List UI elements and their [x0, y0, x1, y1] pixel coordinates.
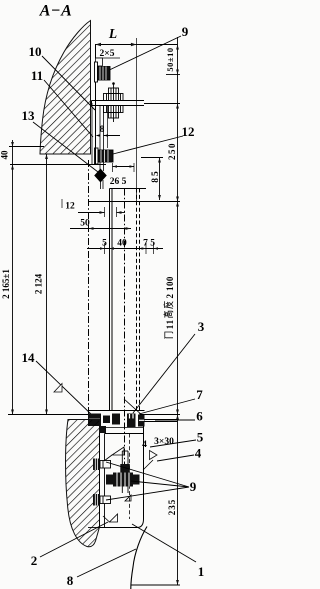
- pivot bolt upper: [104, 82, 124, 100]
- pivot bolt lower: [104, 106, 124, 123]
- dimension 2124: [34, 273, 44, 294]
- dimension 2165±1: [1, 269, 11, 299]
- floor line bottom: [131, 584, 180, 586]
- door centre line: [124, 189, 126, 473]
- pit lid line: [105, 433, 144, 435]
- svg-text:11: 11: [165, 319, 175, 329]
- floor spring clamp nut: [106, 473, 140, 487]
- pit inner wall: [104, 434, 106, 528]
- top anchor bolt: [95, 62, 111, 82]
- svg-text:A−A: A−A: [39, 3, 73, 20]
- dimension door height 2100 (hand-drawn CJK glyphs): [164, 276, 176, 338]
- weld triangle T4: [125, 495, 131, 501]
- glyph gao: [164, 311, 174, 318]
- glyph men: [164, 332, 173, 338]
- wall face inner line: [91, 103, 93, 165]
- door top reference line: [88, 201, 180, 203]
- lintel bottom line: [10, 164, 106, 166]
- svg-text:2×5: 2×5: [100, 49, 115, 59]
- svg-text:1: 1: [198, 564, 205, 579]
- floor tick right: [140, 414, 180, 416]
- svg-text:8: 8: [100, 125, 105, 135]
- pivot bracket plate: [92, 100, 145, 102]
- svg-text:2 165±1: 2 165±1: [1, 269, 11, 299]
- pivot point (filled): [94, 169, 107, 183]
- svg-text:8: 8: [67, 573, 74, 588]
- dimension 26.5: [112, 163, 114, 172]
- anchor bolt pit lower: [93, 494, 111, 506]
- svg-text:12: 12: [182, 124, 195, 139]
- svg-text:10: 10: [29, 44, 42, 59]
- lower wall section (hatched): [66, 420, 100, 547]
- right dimension line: [177, 37, 179, 585]
- svg-text:L: L: [108, 26, 117, 41]
- weld triangle T1: [112, 447, 124, 455]
- left dim line 2124: [46, 154, 48, 415]
- left dim line (40 / 2165): [12, 140, 14, 415]
- floor spring spindle shaft: [120, 451, 130, 493]
- threshold lines: [145, 419, 178, 421]
- leader 9 top: [103, 36, 181, 73]
- frame centre line: [88, 160, 90, 414]
- frame anchor bolt lower: [95, 148, 114, 164]
- svg-text:12: 12: [65, 202, 75, 212]
- svg-text:5: 5: [197, 430, 204, 445]
- door leaf top: [110, 188, 147, 190]
- svg-text:2 100: 2 100: [165, 276, 175, 298]
- svg-text:3: 3: [198, 319, 205, 334]
- svg-text:26 5: 26 5: [110, 177, 127, 187]
- svg-text:6: 6: [196, 409, 203, 424]
- svg-text:3×30: 3×30: [154, 437, 174, 447]
- svg-text:14: 14: [22, 350, 36, 365]
- dimension 235: [167, 499, 177, 516]
- floor line left: [8, 414, 92, 416]
- tick bracket level: [144, 103, 180, 105]
- svg-text:4: 4: [142, 440, 147, 450]
- frame face line: [95, 44, 97, 165]
- glyph du: [164, 301, 174, 308]
- upper wall section (hatched): [40, 21, 91, 155]
- dimension 50±10: [165, 47, 175, 71]
- svg-text:50: 50: [80, 219, 90, 229]
- door stop dashed line c: [139, 189, 141, 411]
- door stop dashed line b: [136, 189, 138, 411]
- svg-text:4: 4: [195, 446, 202, 461]
- pit inner dashed: [129, 434, 131, 520]
- svg-text:2: 2: [31, 553, 38, 568]
- svg-text:50±10: 50±10: [165, 47, 175, 71]
- door leaf face line b: [111, 189, 113, 411]
- pit top edge: [100, 427, 144, 429]
- wall edge curve bottom right: [131, 527, 147, 589]
- tick 50±10 bottom: [166, 74, 180, 76]
- svg-text:40: 40: [0, 150, 10, 160]
- pivot rod lines: [99, 106, 101, 171]
- dimension 250: [167, 142, 177, 160]
- anchor bolt pit upper: [93, 459, 111, 471]
- svg-text:9: 9: [182, 24, 189, 39]
- svg-text:9: 9: [190, 479, 197, 494]
- dimension L: [96, 44, 178, 46]
- dimension 85: [141, 157, 163, 159]
- door leaf bottom edge: [88, 410, 145, 412]
- svg-text:250: 250: [167, 142, 177, 160]
- L extension line: [136, 38, 138, 202]
- leader 12: [113, 136, 183, 154]
- door leaf face line a: [109, 189, 111, 411]
- crossing leader: [124, 399, 143, 416]
- floor closer pit: [100, 426, 144, 528]
- svg-text:11: 11: [31, 68, 43, 83]
- svg-text:13: 13: [22, 108, 36, 123]
- svg-text:7: 7: [196, 387, 203, 402]
- svg-text:40: 40: [117, 239, 127, 249]
- bracket step: [95, 58, 102, 66]
- weld flag on leader 14: [54, 384, 62, 393]
- svg-text:235: 235: [167, 499, 177, 516]
- pit top anchor block: [99, 426, 106, 433]
- pivot axis below: [100, 180, 102, 189]
- svg-text:2 124: 2 124: [34, 273, 44, 294]
- weld triangle T3: [110, 514, 118, 522]
- svg-text:85: 85: [151, 169, 161, 183]
- bottom hardware black parts: [88, 414, 145, 428]
- dimension 40: [0, 150, 10, 160]
